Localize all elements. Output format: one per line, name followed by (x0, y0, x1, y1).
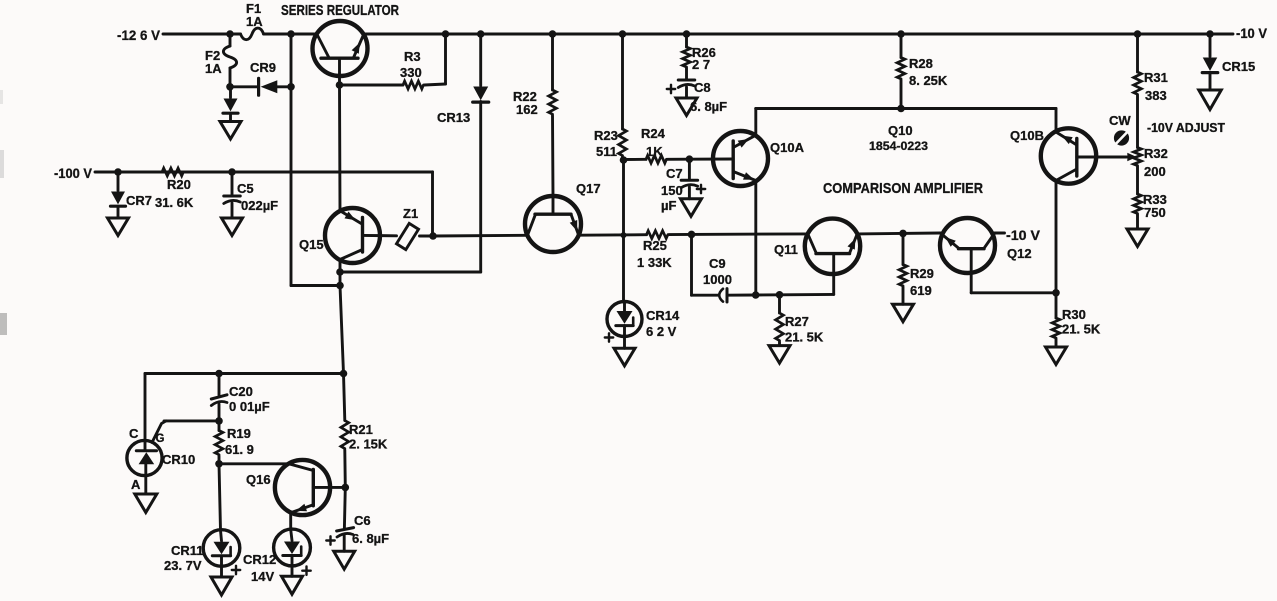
svg-text:2 7: 2 7 (692, 57, 710, 72)
svg-text:21. 5K: 21. 5K (785, 330, 824, 345)
scan smudge left edge (0, 90, 7, 335)
svg-text:C7: C7 (666, 166, 683, 181)
wire to Q15 emitter (338, 85, 341, 211)
svg-text:6. 8µF: 6. 8µF (352, 531, 389, 546)
svg-text:Q12: Q12 (1007, 246, 1032, 261)
svg-text:G: G (156, 433, 165, 445)
svg-text:14V: 14V (251, 569, 274, 584)
svg-text:Q10B: Q10B (1010, 128, 1044, 143)
wire to CR11 (219, 464, 221, 530)
resistor R31 (1134, 34, 1168, 148)
node rail-R28 (897, 30, 905, 38)
wire rail to Q15 collector bus (291, 34, 340, 286)
node rail-R22 (549, 30, 557, 38)
wire R23 node to CR14 (622, 160, 625, 302)
node rail-CR13 (477, 30, 485, 38)
node rail-R26 (683, 30, 691, 38)
svg-text:0 01µF: 0 01µF (229, 399, 270, 414)
ground under C5 (222, 218, 243, 236)
label -12 6 V (117, 27, 161, 43)
resistor R27 (776, 295, 824, 346)
fuse F2 (205, 34, 237, 87)
svg-text:R30: R30 (1062, 307, 1086, 322)
node rail-R23 (619, 30, 627, 38)
adjust screw CW (1109, 113, 1131, 146)
transistor series regulator (313, 21, 368, 85)
node rail-CR9 vertical (287, 30, 295, 38)
svg-text:-10 V: -10 V (1006, 228, 1040, 243)
ground under CR15 (1199, 90, 1222, 110)
svg-text:2. 15K: 2. 15K (349, 437, 388, 452)
svg-text:330: 330 (400, 65, 422, 80)
node Q10A collector/bus (752, 291, 760, 299)
svg-text:CR11: CR11 (171, 543, 204, 558)
svg-text:8. 25K: 8. 25K (909, 73, 948, 88)
node rail-R31 (1134, 30, 1142, 38)
thyristor CR10 (127, 421, 219, 493)
resistor R22 (513, 34, 556, 196)
svg-text:6 2 V: 6 2 V (646, 324, 677, 339)
svg-text:1A: 1A (246, 14, 263, 29)
ground under CR10 (135, 494, 157, 513)
svg-text:1854-0223: 1854-0223 (869, 139, 928, 153)
ground under R29 (893, 304, 914, 322)
label -10 V output (1236, 25, 1268, 41)
svg-text:R20: R20 (167, 177, 191, 192)
svg-text:Q17: Q17 (576, 181, 601, 196)
capacitor C7 (661, 159, 705, 213)
ground under R27 (769, 346, 790, 364)
svg-text:CR9: CR9 (250, 60, 276, 75)
node Q15 bus (336, 282, 344, 290)
svg-text:CW: CW (1109, 113, 1131, 128)
wire to Q16 collector (219, 462, 289, 465)
transistor Q15 (299, 208, 397, 272)
svg-text:31. 6K: 31. 6K (155, 195, 194, 210)
ground under CR14 (614, 348, 635, 366)
zener CR14 (605, 302, 680, 349)
svg-text:1A: 1A (205, 61, 222, 76)
label SERIES REGULATOR (281, 3, 399, 19)
wire Q17 collector line (579, 233, 647, 236)
resistor R19 (215, 421, 254, 464)
transistor Q10B (1010, 109, 1137, 293)
node C20 top (215, 370, 223, 378)
node F1/F2 split (226, 30, 234, 38)
svg-text:383: 383 (1145, 88, 1167, 103)
diode CR9 (230, 60, 291, 95)
svg-text:SERIES REGULATOR: SERIES REGULATOR (281, 3, 399, 19)
resistor R33 (1134, 192, 1167, 229)
zener Z1 (396, 206, 433, 250)
svg-text:R19: R19 (227, 426, 251, 441)
svg-text:R23: R23 (594, 128, 618, 143)
node R23 line crosses Q17 wire (621, 232, 627, 238)
svg-text:150: 150 (661, 183, 683, 198)
capacitor C6 (326, 487, 389, 551)
transistor Q11 (774, 219, 860, 295)
wire R25 node to Q11 (692, 232, 808, 235)
svg-text:C5: C5 (237, 181, 254, 196)
svg-text:C9: C9 (709, 256, 726, 271)
diode CR13 (437, 34, 489, 272)
wire Q11 base bus (756, 293, 834, 297)
svg-text:R28: R28 (909, 56, 933, 71)
svg-text:511: 511 (596, 144, 617, 159)
node R24/C7 (686, 155, 694, 163)
node rail-CR15 (1206, 30, 1214, 38)
svg-text:Q11: Q11 (774, 242, 798, 257)
node F2-CR9 junction (226, 83, 234, 91)
svg-text:Q15: Q15 (299, 237, 324, 252)
ground under CR12 (282, 576, 303, 594)
wire Q12 collector stub (995, 232, 1005, 235)
label COMPARISON AMPLIFIER (823, 181, 983, 197)
node R19 bottom (215, 460, 223, 468)
ground under CR11 (211, 577, 232, 595)
capacitor C9 (692, 234, 756, 302)
node rail-R3 (442, 30, 450, 38)
label Q10 (888, 123, 913, 138)
wire Q15 collector to CR13 (340, 271, 481, 274)
resistor R28 (897, 34, 948, 109)
svg-text:R32: R32 (1144, 146, 1168, 161)
node R29 top (899, 230, 907, 238)
node R21 top / Q15 line (340, 370, 348, 378)
svg-text:C20: C20 (229, 384, 253, 399)
node Q10B collector/R30 (1052, 289, 1060, 297)
node Z1 output (429, 232, 437, 240)
svg-text:750: 750 (1144, 205, 1166, 220)
node Q16 base / R21 (342, 484, 350, 492)
ground under C7 (681, 199, 702, 217)
svg-text:R25: R25 (643, 238, 667, 253)
svg-text:R21: R21 (349, 422, 373, 437)
svg-text:-10V ADJUST: -10V ADJUST (1147, 121, 1225, 135)
node R23/R24 (620, 156, 628, 164)
svg-text:CR12: CR12 (243, 552, 276, 567)
node Q15 collector / CR13 (336, 268, 344, 276)
svg-text:CR13: CR13 (437, 110, 470, 125)
svg-text:619: 619 (910, 283, 932, 298)
wire Q11 to Q12 (857, 232, 940, 236)
node CR7 (114, 168, 122, 176)
ground under C6 (334, 551, 355, 569)
svg-text:21. 5K: 21. 5K (1062, 322, 1101, 337)
wire -12.6V input rail (top) (163, 33, 1233, 36)
svg-text:Z1: Z1 (403, 206, 418, 221)
wire lower section top rail (145, 372, 345, 375)
svg-text:CR10: CR10 (162, 452, 195, 467)
svg-text:CR7: CR7 (126, 193, 152, 208)
label 1854-0223 (869, 139, 928, 153)
svg-text:CR14: CR14 (646, 308, 680, 323)
resistor R26 (683, 34, 716, 79)
svg-text:R31: R31 (1144, 70, 1168, 85)
wire Z1 node to -100V feed (431, 172, 434, 236)
svg-text:200: 200 (1144, 164, 1166, 179)
svg-text:µF: µF (661, 198, 676, 213)
node series-reg base/R3 (336, 81, 344, 89)
svg-text:A: A (131, 477, 141, 492)
resistor R3 (340, 34, 446, 89)
wire Z1 node to Q17 (433, 234, 525, 238)
diode CR7 (111, 172, 153, 208)
svg-text:Q16: Q16 (246, 472, 271, 487)
ground under C8 (676, 98, 697, 116)
wire -100V line (95, 171, 433, 174)
svg-text:022µF: 022µF (241, 198, 278, 213)
fuse F1 (241, 1, 264, 40)
node CR9-vertical junction (287, 83, 295, 91)
svg-text:R3: R3 (404, 49, 421, 64)
svg-text:1 33K: 1 33K (637, 255, 672, 270)
resistor R21 (341, 374, 388, 488)
resistor R32 (1134, 146, 1168, 194)
capacitor C8 (667, 80, 727, 114)
ground under CR7 (108, 206, 129, 235)
label -100 V (54, 165, 93, 181)
node R27 top (776, 291, 784, 299)
wire Q15 node down to lower section (340, 272, 344, 374)
diode CR15 (1202, 34, 1255, 90)
resistor R25 (637, 231, 692, 270)
resistor R23 (594, 34, 626, 160)
wire left edge down to CR10 (144, 374, 147, 442)
label -10V ADJUST (1147, 121, 1225, 135)
node R28 bottom (897, 105, 905, 113)
capacitor C5 (224, 172, 278, 218)
wire comparison amp emitter bus (top edge) (756, 107, 1056, 110)
svg-text:-100 V: -100 V (54, 165, 93, 181)
svg-text:162: 162 (516, 102, 538, 117)
svg-text:-10 V: -10 V (1236, 25, 1268, 41)
svg-text:1000: 1000 (703, 272, 732, 287)
ground under R33 (1127, 229, 1148, 247)
transistor Q10A (689, 109, 804, 296)
svg-text:CR15: CR15 (1222, 59, 1255, 74)
svg-text:COMPARISON AMPLIFIER: COMPARISON AMPLIFIER (823, 181, 983, 197)
resistor R30 (1052, 293, 1101, 347)
ground under R30 (1046, 347, 1067, 365)
node C5 (228, 168, 236, 176)
svg-text:1K: 1K (646, 144, 663, 159)
zener CR11 (164, 530, 240, 577)
label -10 V (Q12 collector) (1006, 228, 1040, 243)
svg-text:R29: R29 (910, 266, 934, 281)
node C20/R19/CR10-gate (215, 417, 223, 425)
diode below F2 (223, 87, 238, 113)
ground under F2 diode (220, 114, 241, 140)
node R25/C9 (688, 231, 696, 239)
capacitor C20 (211, 374, 269, 421)
svg-text:Q10: Q10 (888, 123, 913, 138)
svg-text:R27: R27 (785, 314, 809, 329)
transistor Q17 (525, 181, 601, 252)
svg-text:-12 6 V: -12 6 V (117, 27, 161, 43)
svg-text:C8: C8 (694, 80, 711, 95)
svg-text:C: C (129, 426, 139, 441)
svg-text:61. 9: 61. 9 (225, 442, 254, 457)
zener CR12 (243, 529, 311, 584)
resistor R24 (624, 126, 690, 163)
svg-text:23. 7V: 23. 7V (164, 558, 202, 573)
wire Q12 base bus (971, 291, 1056, 294)
svg-text:R24: R24 (641, 126, 666, 141)
resistor R29 (899, 233, 934, 304)
resistor R20 (155, 168, 194, 210)
svg-text:Q10A: Q10A (770, 140, 805, 155)
svg-text:C6: C6 (354, 513, 371, 528)
transistor Q12 (940, 218, 1032, 293)
transistor Q16 (246, 460, 345, 530)
